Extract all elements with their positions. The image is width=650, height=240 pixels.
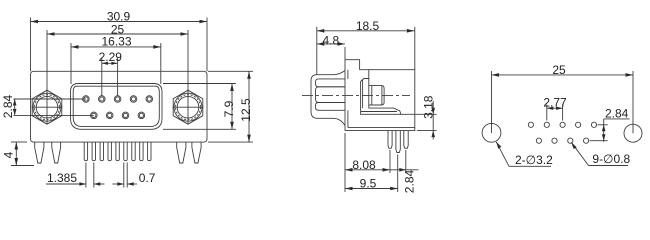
svg-text:2.84: 2.84 <box>1 94 15 118</box>
dim 2.77 <box>543 96 567 121</box>
pcb hole A5 <box>591 122 596 127</box>
flange top step <box>345 60 360 70</box>
bracket leg R1 <box>177 142 186 163</box>
svg-text:0.7: 0.7 <box>139 171 156 185</box>
pin 1 <box>84 142 87 161</box>
svg-text:18.5: 18.5 <box>356 19 380 33</box>
pcb hole B1 <box>536 138 541 143</box>
contact hole B4 <box>138 112 145 119</box>
pcb hole A1 <box>528 122 533 127</box>
body outline <box>345 70 415 131</box>
dim 2.29 <box>99 50 123 96</box>
svg-text:1.385: 1.385 <box>47 171 77 185</box>
pin 9 <box>148 142 151 161</box>
contact hole A5 <box>146 96 153 103</box>
right hex jack screw <box>173 90 204 124</box>
D-sub shell outer <box>71 84 163 130</box>
dim 25 (front) <box>47 22 188 124</box>
contact hole A4 <box>130 96 137 103</box>
pcb hole A3 <box>560 122 565 127</box>
hex nut side (three facets) <box>316 79 346 110</box>
dim 4.8 <box>317 34 345 60</box>
dim 0.7 <box>112 163 155 188</box>
pcb hole B4 <box>584 138 589 143</box>
bracket leg L1 <box>35 142 44 163</box>
side pin back row <box>404 131 408 149</box>
contact hole B2 <box>106 112 113 119</box>
dim 16.33 <box>71 35 161 84</box>
contact hole B1 <box>91 112 98 119</box>
svg-text:7.9: 7.9 <box>222 100 236 117</box>
pcb hole A2 <box>544 122 549 127</box>
side bracket leg <box>396 131 400 153</box>
svg-text:2.84: 2.84 <box>403 169 417 193</box>
pcb hole A4 <box>576 122 581 127</box>
bracket leg R2 <box>192 142 201 163</box>
body base line <box>348 127 415 129</box>
pin 7 <box>132 142 135 161</box>
dim 18.5 <box>317 19 415 75</box>
svg-text:25: 25 <box>552 63 566 77</box>
dim 25 (pcb) <box>492 63 634 133</box>
pin 2 <box>92 142 95 161</box>
dim 2.84 (front left) <box>1 94 94 118</box>
boot outline <box>311 71 345 126</box>
svg-text:2-∅3.2: 2-∅3.2 <box>515 153 553 167</box>
dim 2.84 (pcb) <box>590 106 630 142</box>
svg-text:12.5: 12.5 <box>239 98 253 122</box>
dim 12.5 <box>208 71 253 142</box>
D-sub shell inner <box>73 86 159 126</box>
dim 3.18 <box>401 95 437 139</box>
contact hole A2 <box>99 96 106 103</box>
left hex jack screw <box>32 90 63 124</box>
label 9-dia0.8 <box>571 142 630 166</box>
dim 30.9 <box>31 10 208 72</box>
L-bracket <box>361 79 401 115</box>
dim 4 <box>1 142 34 166</box>
dim 8.08 <box>345 133 390 192</box>
pin 8 <box>140 142 143 161</box>
bracket leg L2 <box>52 142 61 163</box>
pin 5 <box>116 142 119 161</box>
svg-text:3.18: 3.18 <box>422 95 436 119</box>
svg-text:8.08: 8.08 <box>352 158 376 172</box>
pcb hole B2 <box>552 138 557 143</box>
pin 3 <box>100 142 103 161</box>
mounting hole left <box>482 123 501 142</box>
bracket inner edge <box>362 80 364 109</box>
contact hole A1 <box>83 96 90 103</box>
svg-text:2.77: 2.77 <box>543 96 567 110</box>
screw cylinder <box>369 86 384 105</box>
shell rear edge <box>368 70 370 79</box>
pin 4 <box>108 142 111 161</box>
svg-text:9.5: 9.5 <box>360 177 377 191</box>
bracket foot inner line <box>361 111 397 113</box>
svg-text:4.8: 4.8 <box>322 34 339 48</box>
svg-text:4: 4 <box>1 151 15 158</box>
flange back face <box>347 70 349 79</box>
dim 7.9 <box>163 84 236 130</box>
flange plate <box>31 71 208 142</box>
contact hole B3 <box>122 112 129 119</box>
mounting hole right <box>624 124 642 142</box>
pin 6 <box>124 142 127 161</box>
centerline <box>302 94 410 96</box>
dim 2.84 (side) <box>390 150 419 193</box>
dim 1.385 <box>46 163 105 188</box>
contact hole A3 <box>114 96 121 103</box>
svg-text:2.29: 2.29 <box>99 50 123 64</box>
svg-text:9-∅0.8: 9-∅0.8 <box>592 152 630 166</box>
dim 9.5 <box>345 155 398 193</box>
flange front face <box>344 60 346 131</box>
side pin front row <box>388 131 392 149</box>
svg-text:16.33: 16.33 <box>101 35 131 49</box>
label 2-dia3.2 <box>496 142 553 167</box>
svg-text:2.84: 2.84 <box>605 106 629 120</box>
pcb hole B3 <box>568 138 573 143</box>
